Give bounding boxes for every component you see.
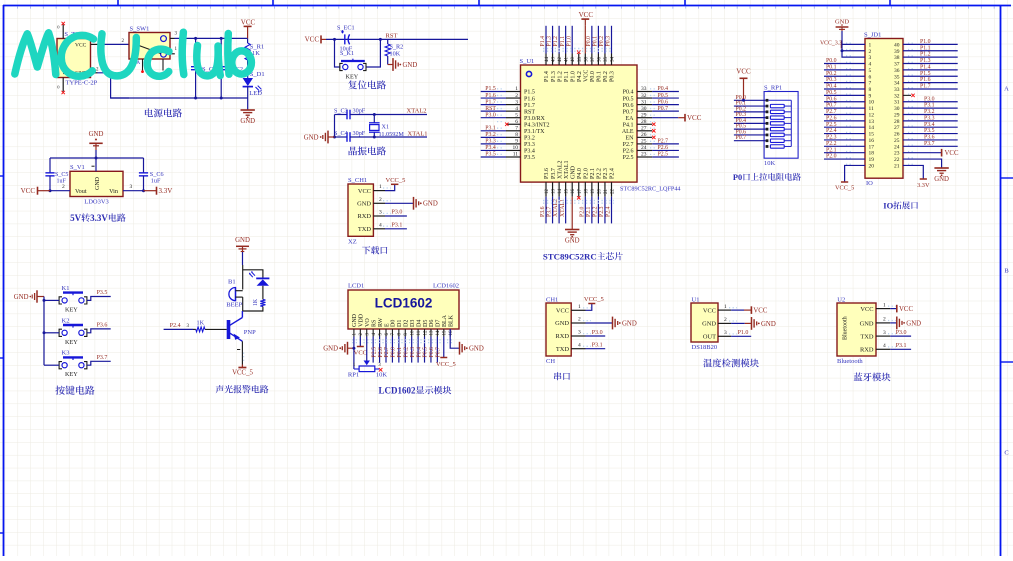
wire base	[205, 328, 227, 330]
power port 3.3V (right)	[144, 187, 173, 196]
wire XTAL2	[374, 114, 427, 116]
svg-text:D7: D7	[436, 320, 442, 327]
svg-text:LCD1602: LCD1602	[375, 296, 433, 311]
svg-text:S_C3: S_C3	[334, 107, 348, 114]
svg-text:P3.5: P3.5	[524, 155, 535, 161]
resistor 1K (LED)	[253, 286, 266, 307]
wire pin3 P3.0	[385, 210, 407, 216]
no-ERC marker pin 26	[652, 136, 655, 139]
wire net P0.6 to RP1	[734, 129, 766, 135]
svg-text:D1: D1	[397, 320, 403, 327]
svg-text:RST: RST	[386, 32, 398, 39]
svg-text:P2.5: P2.5	[371, 347, 377, 358]
power port VCC (LCD)	[354, 347, 367, 357]
svg-text:P2.5: P2.5	[826, 122, 837, 128]
svg-text:P2.0: P2.0	[584, 168, 590, 179]
svg-text:P3.5: P3.5	[924, 128, 935, 134]
wire net P3.3 (JD1 pin 28)	[903, 115, 958, 121]
svg-text:P0.7: P0.7	[826, 103, 837, 109]
S_SW1 bottom pin 2	[162, 59, 164, 71]
capacitor S_C3 30pF	[334, 107, 374, 119]
wire bottom net P2.3	[599, 197, 605, 224]
pin 12 (D5) stub	[423, 329, 428, 337]
caption 5V转3.3V电路	[70, 213, 126, 223]
svg-text:36: 36	[597, 57, 602, 63]
transistor Q1 PNP	[229, 311, 257, 341]
wire LCD VO to wiper	[366, 337, 368, 361]
svg-text:GND: GND	[702, 321, 716, 328]
pin 2 stub (CH1)	[571, 317, 591, 323]
svg-text:GND: GND	[565, 238, 580, 245]
svg-text:34: 34	[894, 81, 900, 87]
svg-text:4: 4	[869, 62, 872, 68]
svg-text:P2.1: P2.1	[590, 168, 596, 179]
wire GND to node	[242, 252, 244, 265]
pin 3 stub (U1)	[718, 330, 737, 336]
wire net P0.4 (JD1 pin 8)	[824, 84, 865, 90]
svg-text:LED: LED	[249, 90, 262, 97]
svg-text:K1: K1	[62, 285, 70, 292]
wire pin2 to GND	[385, 197, 438, 210]
svg-text:P2.0: P2.0	[579, 206, 585, 217]
svg-text:RS: RS	[371, 320, 377, 327]
svg-text:23: 23	[894, 151, 900, 157]
junction	[742, 99, 745, 102]
resistor S_R2 10K	[385, 39, 403, 64]
svg-text:TXD: TXD	[358, 226, 372, 233]
no-ERC marker pin 28	[652, 123, 655, 126]
wire net P3.1 (JD1 pin 30)	[903, 103, 958, 109]
svg-text:K2: K2	[62, 317, 70, 324]
net label XTAL1	[408, 130, 428, 137]
svg-text:TXD: TXD	[860, 334, 874, 341]
svg-text:25: 25	[641, 139, 647, 145]
svg-text:D2: D2	[404, 320, 410, 327]
pin 13 (D6) stub	[430, 329, 435, 337]
svg-text:37: 37	[894, 62, 900, 68]
wire GND (MCU bottom)	[571, 197, 573, 229]
svg-text:P2.1: P2.1	[826, 147, 837, 153]
svg-text:1: 1	[869, 42, 872, 48]
svg-text:P1.0: P1.0	[570, 71, 576, 82]
svg-text:P3.5: P3.5	[97, 290, 108, 296]
svg-text:42: 42	[558, 57, 563, 63]
svg-text:P3.4: P3.4	[924, 122, 935, 128]
svg-text:37: 37	[591, 57, 596, 63]
svg-text:15: 15	[443, 330, 448, 336]
ground GND (JD1 right)	[934, 168, 949, 183]
wire D0 to net P0.0	[391, 337, 397, 363]
header CH1 (serial)	[546, 297, 571, 366]
svg-text:P0.6: P0.6	[826, 96, 837, 102]
wire rail to K1	[44, 299, 59, 301]
svg-text:30: 30	[641, 106, 647, 112]
pin 21 (P2.3) bottom stub	[604, 182, 609, 197]
svg-text:14: 14	[436, 330, 441, 336]
svg-text:8: 8	[515, 132, 518, 138]
wire K2 to net P3.6	[87, 323, 111, 333]
compile mask dots (MCU bottom)	[543, 201, 614, 204]
ground GND (top of LDO)	[89, 131, 104, 150]
svg-text:P2.7: P2.7	[658, 139, 669, 145]
wire net P0.1 (JD1 pin 5)	[824, 64, 865, 70]
svg-text:XTAL1: XTAL1	[564, 160, 570, 179]
wire net P1.3 (JD1 pin 37)	[903, 58, 958, 64]
svg-text:P0.5: P0.5	[623, 96, 634, 102]
svg-text:GND: GND	[469, 346, 484, 353]
caption 温度检测模块	[703, 359, 759, 368]
wire top net P0.2	[599, 26, 605, 54]
svg-text:GND: GND	[860, 320, 874, 327]
svg-text:P2.3: P2.3	[599, 206, 605, 217]
pin 2 stub	[373, 197, 391, 204]
wire JD1 pin23 to VCC	[903, 149, 959, 157]
wire net P2.6 (JD1 pin 13)	[824, 115, 865, 121]
pin 14 (D7) stub	[436, 329, 441, 337]
svg-text:20: 20	[869, 163, 875, 169]
wire top net P0.0	[586, 26, 592, 54]
wire net P2.3 (JD1 pin 16)	[824, 135, 865, 141]
wire net P3.4 (JD1 pin 27)	[903, 122, 958, 128]
svg-text:TYPE-C-2P: TYPE-C-2P	[66, 80, 98, 87]
wire net P3.0 (JD1 pin 31)	[903, 96, 958, 102]
pin 5 (RW) stub	[378, 329, 383, 337]
wire bottom net P2.4	[606, 197, 612, 224]
svg-text:GND: GND	[352, 313, 358, 327]
svg-text:3: 3	[515, 99, 518, 105]
svg-text:GND: GND	[14, 294, 29, 301]
power port VCC (left)	[21, 187, 50, 196]
junction	[373, 113, 376, 116]
svg-text:6: 6	[869, 74, 872, 80]
svg-text:P0.5: P0.5	[658, 93, 669, 99]
wire U1 pin3 P1.0	[731, 330, 751, 336]
resistor network S_RP1 10K	[764, 85, 798, 168]
svg-text:3: 3	[883, 330, 886, 336]
svg-text:P1.1: P1.1	[564, 71, 570, 82]
svg-text:11: 11	[513, 152, 519, 158]
svg-text:RXD: RXD	[860, 347, 874, 354]
svg-text:B: B	[1004, 268, 1009, 275]
svg-text:12: 12	[869, 112, 875, 118]
svg-text:P1.3: P1.3	[551, 71, 557, 82]
svg-text:K3: K3	[62, 350, 70, 357]
svg-text:32: 32	[641, 93, 647, 99]
caption 声光报警电路	[216, 385, 269, 393]
svg-text:11: 11	[869, 106, 875, 112]
no-ERC marker P4.0	[577, 196, 580, 199]
svg-text:RST: RST	[524, 109, 535, 115]
wire rail to K3	[44, 364, 59, 366]
svg-text:GND: GND	[622, 320, 637, 327]
ground GND (crystal)	[304, 131, 335, 144]
wire XTAL1	[374, 136, 427, 138]
wire emitter to VCC_5	[237, 341, 244, 364]
wire CH1 pin4 P3.1	[586, 343, 606, 349]
svg-text:P3.1: P3.1	[392, 223, 403, 229]
svg-text:VCC_3.3: VCC_3.3	[820, 40, 842, 46]
wire net P2.7 (JD1 pin 12)	[824, 109, 865, 115]
svg-text:P3.2: P3.2	[924, 109, 935, 115]
svg-text:P3.6: P3.6	[540, 206, 546, 217]
pin 23 (P2.5)	[637, 152, 657, 158]
svg-text:2: 2	[578, 317, 581, 323]
svg-text:KEY: KEY	[65, 306, 78, 313]
svg-text:1: 1	[578, 304, 581, 310]
svg-text:P0: P0	[733, 173, 742, 182]
pin 44 (P1.4) top stub	[545, 54, 550, 66]
svg-text:1uF: 1uF	[151, 178, 161, 185]
svg-text:P1.4: P1.4	[920, 64, 931, 70]
pin 18 (P2.0) bottom stub	[584, 182, 589, 197]
capacitor S_C1	[191, 38, 216, 98]
svg-text:GND: GND	[95, 176, 101, 190]
svg-text:7: 7	[869, 81, 872, 87]
svg-text:P0.6: P0.6	[429, 347, 435, 358]
wire U2 pin2 to GND	[890, 317, 921, 330]
svg-text:19: 19	[869, 157, 875, 163]
svg-text:GND: GND	[423, 201, 438, 208]
wire U1 pin1 to VCC	[731, 306, 768, 314]
wire net P0.7 (JD1 pin 11)	[824, 103, 865, 109]
pin 9 (P3.3)	[497, 139, 521, 145]
junction	[333, 136, 336, 139]
svg-text:3.3V: 3.3V	[159, 187, 173, 195]
svg-text:23: 23	[641, 152, 647, 158]
svg-text:10: 10	[869, 100, 875, 106]
svg-text:P2.4: P2.4	[826, 128, 837, 134]
svg-text:7: 7	[515, 126, 518, 132]
svg-text:Bluetooth: Bluetooth	[843, 316, 849, 340]
wire to net P3.2	[481, 132, 506, 138]
svg-text:GND: GND	[304, 134, 319, 141]
key S_K1	[335, 39, 381, 80]
pin 3 wire Vin	[123, 184, 144, 191]
junction	[220, 97, 223, 100]
caption STC89C52RC主芯片	[543, 252, 623, 262]
pin 29 (EA)	[637, 112, 657, 118]
svg-text:P0.0: P0.0	[586, 36, 592, 47]
ground GND (LCD left)	[323, 342, 354, 355]
key K1	[59, 285, 87, 314]
svg-text:BLK: BLK	[449, 314, 455, 327]
wire VCC to RST	[326, 38, 468, 40]
wire K1 to net P3.5	[87, 290, 111, 300]
svg-text:GND: GND	[570, 165, 576, 179]
svg-text:10K: 10K	[764, 160, 776, 167]
svg-text:P1.0: P1.0	[566, 36, 572, 47]
wire to net P3.1	[481, 126, 506, 132]
wire S_T1 pin2 to bottom rail	[98, 73, 130, 98]
svg-text:2: 2	[515, 93, 518, 99]
pin 3 stub of S_SW1	[170, 32, 178, 39]
pin 22 (P2.4) bottom stub	[611, 182, 616, 197]
svg-text:VCC: VCC	[579, 11, 594, 19]
pin 1 stub of S_T1	[91, 39, 98, 44]
svg-text:P2.5: P2.5	[623, 155, 634, 161]
wire net P1.5 (JD1 pin 35)	[903, 71, 958, 77]
svg-text:25: 25	[894, 138, 900, 144]
wire C3-C4 left	[334, 115, 336, 138]
svg-text:P3.0/RX: P3.0/RX	[524, 116, 546, 122]
wire K3 to net P3.7	[87, 355, 111, 365]
svg-text:P2.4: P2.4	[610, 168, 616, 179]
svg-text:VCC: VCC	[687, 114, 702, 122]
svg-text:P0.7: P0.7	[736, 135, 747, 141]
svg-text:P2.2: P2.2	[597, 168, 603, 179]
wire net P3.2 (JD1 pin 29)	[903, 109, 958, 115]
svg-text:P0.7: P0.7	[436, 347, 442, 358]
wire U2 pin4 P3.1	[890, 343, 911, 349]
svg-text:P3.2: P3.2	[485, 132, 496, 138]
svg-text:P2.6: P2.6	[658, 145, 669, 151]
svg-text:13: 13	[869, 119, 875, 125]
wire S_T1 to S_SW1	[98, 39, 130, 44]
pin 3 (P1.7)	[497, 99, 521, 105]
svg-text:32: 32	[894, 93, 900, 99]
wire E to net P2.7	[384, 337, 390, 363]
wire net P0.4 to RP1	[734, 118, 766, 124]
svg-text:1: 1	[379, 184, 382, 190]
pin 2 stub (U1)	[718, 317, 737, 323]
svg-text:RW: RW	[378, 317, 384, 327]
svg-text:LCD1602: LCD1602	[378, 386, 416, 396]
junction	[43, 331, 46, 334]
svg-text:P2.2: P2.2	[826, 141, 837, 147]
svg-text:3: 3	[379, 210, 382, 216]
wire net P0.5 (JD1 pin 9)	[824, 90, 865, 96]
wire LCD BLA to VCC_5	[443, 337, 445, 358]
pin 3 stub (U2)	[876, 330, 896, 336]
pin 10 (P3.4)	[497, 145, 521, 151]
svg-text:VCC_5: VCC_5	[835, 185, 854, 192]
wire top net P0.3	[606, 26, 612, 54]
wire top net P1.2	[553, 26, 559, 54]
svg-text:9: 9	[869, 93, 872, 99]
net label RST	[386, 32, 398, 39]
svg-text:2: 2	[62, 184, 65, 190]
svg-text:P0.2: P0.2	[603, 71, 609, 82]
svg-text:S_U1: S_U1	[520, 58, 535, 65]
svg-text:28: 28	[894, 119, 900, 125]
S_SW1 unconnected bottom pin with dot	[141, 59, 144, 73]
potentiometer RP1 10K	[348, 361, 388, 379]
svg-text:P3.0: P3.0	[592, 330, 603, 336]
svg-text:P0.3: P0.3	[826, 77, 837, 83]
pin 28 (P4.1)	[637, 119, 657, 125]
connector S_T1 TYPE-C-2P	[57, 25, 98, 90]
svg-text:RP1: RP1	[348, 372, 359, 379]
wire LCD BLK to GND	[450, 329, 459, 348]
pin header S_JD1 40-pin	[846, 32, 914, 187]
svg-text:5: 5	[869, 68, 872, 74]
svg-text:P0.1: P0.1	[593, 36, 599, 47]
pin 3 stub (CH1)	[571, 330, 591, 336]
wire net P0.3 to RP1	[734, 112, 766, 118]
wire U1 pin2 to GND	[731, 317, 776, 330]
caption 下载口	[362, 246, 387, 254]
svg-text:15: 15	[869, 132, 875, 138]
pin 31 (P0.6)	[637, 99, 657, 105]
wire net P0.2 to RP1	[734, 106, 766, 112]
header S_CH1 (download)	[348, 177, 373, 246]
svg-text:P3.1: P3.1	[485, 126, 496, 132]
pin 34 (P0.3) top stub	[611, 54, 616, 66]
svg-text:40: 40	[571, 57, 576, 63]
wire top net P1.4	[540, 26, 546, 54]
wire to net P0.6	[652, 99, 679, 105]
svg-text:P3.0: P3.0	[485, 112, 496, 118]
pin 9 (D2) stub	[404, 329, 409, 337]
svg-text:XTAL1: XTAL1	[408, 130, 428, 137]
svg-text:XTAL2: XTAL2	[553, 199, 559, 217]
svg-text:2: 2	[869, 49, 872, 55]
svg-text:BLA: BLA	[442, 314, 448, 327]
svg-text:27: 27	[894, 125, 900, 131]
no-ERC marker on S_T1 bottom pin	[62, 91, 65, 94]
pin 37 (P0.0) top stub	[591, 54, 596, 66]
pin 3 stub	[373, 210, 391, 217]
caption 蓝牙模块	[854, 373, 891, 382]
svg-text:OUT: OUT	[703, 334, 716, 341]
svg-text:9: 9	[515, 139, 518, 145]
svg-text:4: 4	[379, 222, 382, 228]
svg-text:P2.7: P2.7	[623, 142, 634, 148]
svg-text:VCC: VCC	[703, 307, 716, 314]
svg-text:A: A	[1004, 86, 1009, 93]
pin 33 (P0.4)	[637, 86, 657, 92]
svg-text:20: 20	[597, 189, 602, 195]
junction	[352, 347, 355, 350]
pin A (top) of S_T1	[62, 25, 64, 39]
svg-text:P1.4: P1.4	[544, 71, 550, 82]
svg-text:P0.2: P0.2	[403, 347, 409, 358]
wire net P1.4 (JD1 pin 36)	[903, 64, 958, 70]
wire LED branch bottom	[243, 307, 263, 312]
svg-text:P0.1: P0.1	[597, 71, 603, 82]
power port VCC (MCU top)	[579, 11, 594, 54]
svg-text:BEEP: BEEP	[226, 301, 242, 308]
wire LCD VDD to VCC	[359, 337, 361, 347]
wire LED branch top	[243, 270, 263, 279]
svg-text:S_CH1: S_CH1	[348, 177, 367, 184]
pin 7 (P3.1/TX)	[497, 126, 521, 132]
svg-text:33: 33	[641, 86, 647, 92]
svg-text:X1: X1	[382, 123, 390, 130]
svg-text:GND: GND	[357, 201, 371, 208]
wire D1 to GND	[247, 87, 249, 110]
svg-text:P1.7: P1.7	[485, 99, 496, 105]
wire LCD GND pin1	[353, 337, 355, 370]
svg-text:P4.0: P4.0	[577, 168, 583, 179]
svg-text:22: 22	[611, 189, 616, 195]
svg-text:LCD1602: LCD1602	[433, 283, 459, 290]
wire net P3.5 (JD1 pin 26)	[903, 128, 958, 134]
no-ERC marker P4.2	[577, 51, 580, 54]
wire button rail	[43, 297, 45, 366]
power port VCC (RP1)	[736, 68, 751, 101]
wire pin1 to VCC_5	[385, 177, 405, 191]
wire bottom net XTAL2	[553, 197, 559, 224]
capacitor S_C5	[45, 158, 68, 191]
wire buzzer to collector node	[242, 297, 244, 311]
wire to net P0.5	[652, 93, 679, 99]
svg-text:P0.6: P0.6	[623, 103, 634, 109]
svg-text:VCC: VCC	[584, 70, 590, 82]
module U2 Bluetooth	[837, 297, 876, 366]
wire RW to net P2.6	[378, 337, 384, 363]
wire net P1.2 (JD1 pin 38)	[903, 52, 958, 58]
